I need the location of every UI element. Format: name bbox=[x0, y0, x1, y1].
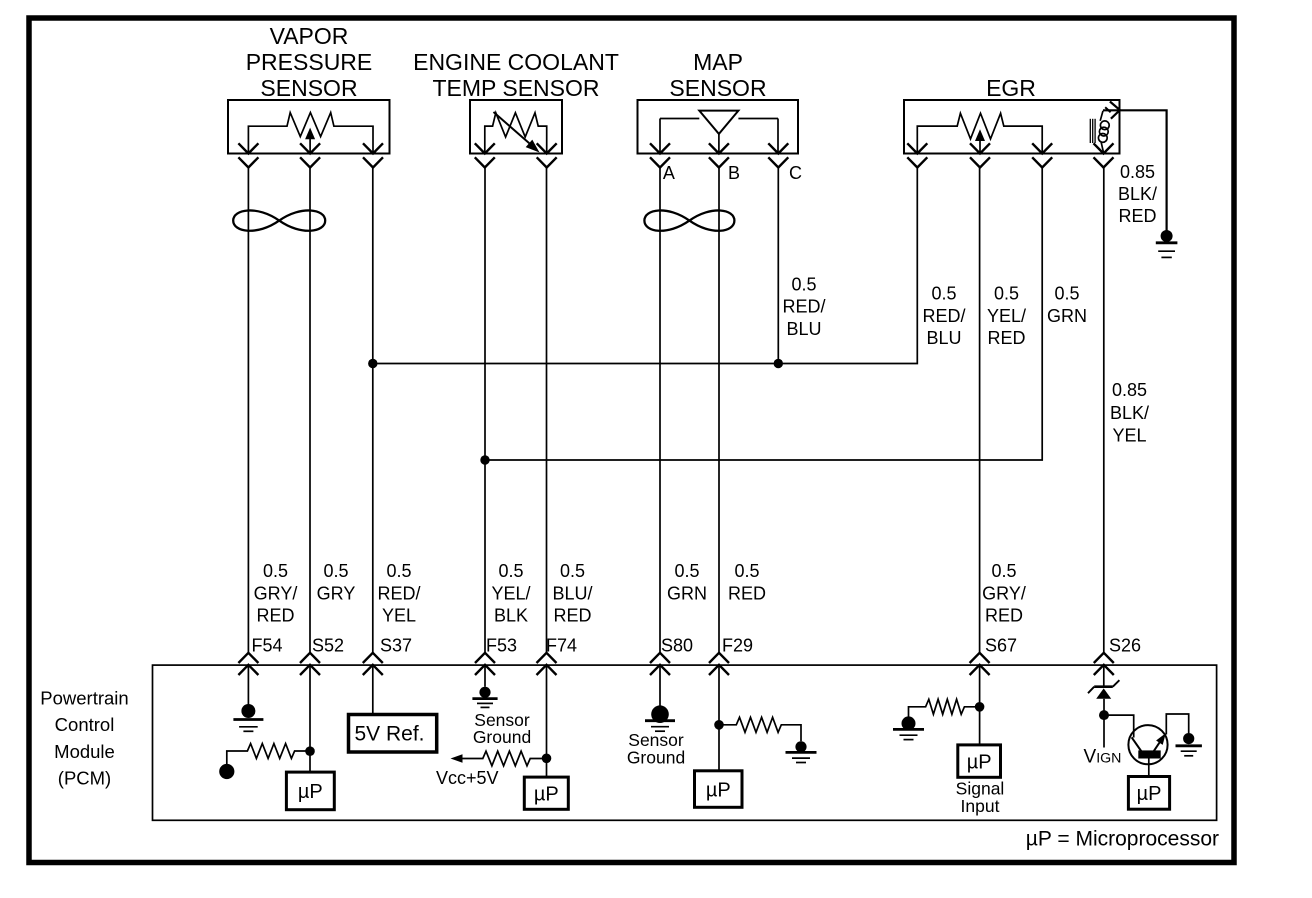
svg-text:µP: µP bbox=[298, 781, 323, 803]
svg-text:0.5: 0.5 bbox=[931, 284, 956, 304]
node supply dot (S52 pull-up) bbox=[219, 764, 234, 779]
MAP transducer triangle bbox=[699, 111, 738, 134]
svg-text:BLU: BLU bbox=[926, 328, 961, 348]
svg-text:A: A bbox=[663, 163, 675, 183]
svg-text:Input: Input bbox=[961, 796, 1000, 816]
svg-text:S80: S80 bbox=[661, 636, 693, 656]
microprocessor U3 (F29 input) bbox=[695, 771, 743, 808]
ground (F54 sensor return) bbox=[241, 704, 255, 718]
svg-text:YEL: YEL bbox=[1112, 426, 1146, 446]
EGR box bbox=[904, 100, 1120, 154]
potentiometer in EGR valve bbox=[917, 113, 1042, 153]
ground (F53 sensor ground) bbox=[479, 687, 490, 698]
terminal 2 of EGR bbox=[970, 143, 990, 167]
terminal 1 of EGR bbox=[907, 143, 927, 167]
wire VPS-2 to S52 (0.5 GRY) bbox=[309, 168, 311, 653]
svg-text:SENSOR: SENSOR bbox=[669, 75, 766, 101]
svg-text:S37: S37 bbox=[380, 636, 412, 656]
svg-text:Vcc+5V: Vcc+5V bbox=[436, 768, 499, 788]
Powertrain Control Module (PCM) box bbox=[153, 665, 1217, 820]
MAP sensor internal wiring bbox=[660, 118, 699, 120]
svg-text:S52: S52 bbox=[312, 636, 344, 656]
wire MAP-A to S80 (0.5 GRN) bbox=[659, 168, 661, 653]
svg-text:0.5: 0.5 bbox=[1054, 284, 1079, 304]
svg-text:0.5: 0.5 bbox=[791, 274, 816, 294]
wire VIGN stub bbox=[1103, 715, 1105, 747]
wire S52 to microprocessor bbox=[309, 665, 311, 772]
engine coolant temp sensor box bbox=[470, 100, 562, 154]
svg-text:RED: RED bbox=[985, 606, 1023, 626]
svg-text:RED: RED bbox=[1118, 206, 1156, 226]
svg-text:µP: µP bbox=[706, 779, 731, 801]
svg-text:S26: S26 bbox=[1109, 636, 1141, 656]
wire EGR solenoid to ground (0.85 BLK/RED) bbox=[1103, 110, 1167, 231]
wire ECT-1 to F53 (0.5 YEL/BLK) bbox=[484, 168, 486, 653]
svg-text:VAPOR: VAPOR bbox=[270, 23, 349, 49]
node junction MAP-C/5V bus bbox=[774, 359, 783, 368]
wire to transistor base bbox=[1104, 715, 1134, 737]
connector S67 at PCM bbox=[970, 653, 990, 675]
EGR solenoid coil bbox=[1100, 111, 1103, 121]
wiper arrow of EGR potentiometer bbox=[979, 141, 981, 154]
wire transistor collector to ground bbox=[1166, 714, 1188, 735]
svg-text:0.5: 0.5 bbox=[263, 561, 288, 581]
terminal B of MAP sensor bbox=[709, 143, 729, 167]
terminal A of MAP sensor bbox=[650, 143, 670, 167]
terminal C of MAP sensor bbox=[768, 143, 788, 167]
svg-text:5V Ref.: 5V Ref. bbox=[354, 723, 424, 746]
svg-text:0.85: 0.85 bbox=[1120, 162, 1155, 182]
svg-text:BLK/: BLK/ bbox=[1110, 403, 1149, 423]
connector F29 at PCM bbox=[709, 653, 729, 675]
connector F74 at PCM bbox=[537, 653, 557, 675]
svg-text:BLK/: BLK/ bbox=[1118, 184, 1157, 204]
svg-text:RED: RED bbox=[553, 606, 591, 626]
svg-text:0.85: 0.85 bbox=[1112, 380, 1147, 400]
svg-text:GRY/: GRY/ bbox=[982, 583, 1026, 603]
svg-text:0.5: 0.5 bbox=[734, 561, 759, 581]
terminal 3 of EGR bbox=[1032, 143, 1052, 167]
svg-text:B: B bbox=[728, 163, 740, 183]
svg-text:Control: Control bbox=[55, 714, 115, 735]
ground (EGR solenoid supply return) bbox=[1161, 230, 1173, 242]
EGR solenoid connector arrow at corner bbox=[1110, 102, 1120, 119]
terminal 1 of coolant temp sensor bbox=[475, 143, 495, 167]
svg-text:µP: µP bbox=[1137, 783, 1162, 805]
svg-text:BLU: BLU bbox=[786, 319, 821, 339]
svg-text:RED: RED bbox=[256, 606, 294, 626]
wire S26 to zener diode bbox=[1103, 665, 1105, 686]
svg-text:Ground: Ground bbox=[627, 748, 685, 768]
wire F74 to microprocessor bbox=[546, 665, 548, 777]
wire MAP-C to 5V bus (0.5 RED/BLU) bbox=[777, 168, 779, 364]
node junction VIGN bbox=[1099, 710, 1109, 720]
wire VPS-3 to S37 (0.5 RED/YEL) bbox=[372, 168, 374, 653]
wire MAP-B to F29 (0.5 RED) bbox=[718, 168, 720, 653]
wire transistor emitter to microprocessor bbox=[1148, 759, 1150, 777]
svg-text:Powertrain: Powertrain bbox=[40, 687, 128, 708]
wire VPS-1 to F54 (0.5 GRY/RED) bbox=[247, 168, 249, 653]
zener diode D1 bbox=[1094, 685, 1113, 688]
thermistor in coolant temp sensor bbox=[485, 113, 547, 154]
node junction F29/resistor bbox=[714, 720, 724, 730]
ground (F29 pull-down) bbox=[795, 741, 806, 752]
svg-text:VIGN: VIGN bbox=[1084, 747, 1122, 768]
ground (S67 pull-down) bbox=[902, 716, 916, 730]
svg-text:PRESSURE: PRESSURE bbox=[246, 49, 373, 75]
svg-text:RED/: RED/ bbox=[782, 297, 825, 317]
svg-text:RED/: RED/ bbox=[377, 583, 420, 603]
svg-text:F74: F74 bbox=[546, 636, 577, 656]
svg-text:F29: F29 bbox=[722, 636, 753, 656]
svg-text:MAP: MAP bbox=[693, 49, 743, 75]
wire EGR-4 to S26 (0.85 BLK/YEL) bbox=[1103, 168, 1105, 653]
svg-text:YEL/: YEL/ bbox=[987, 306, 1026, 326]
connector S52 at PCM bbox=[300, 653, 320, 675]
connector S26 at PCM bbox=[1094, 653, 1114, 675]
wiper arrow of vapor pressure sensor bbox=[309, 139, 311, 154]
svg-text:Ground: Ground bbox=[473, 727, 531, 747]
connector F53 at PCM bbox=[475, 653, 495, 675]
potentiometer in vapor pressure sensor bbox=[248, 113, 373, 154]
wire S67 to microprocessor bbox=[979, 665, 981, 745]
svg-text:0.5: 0.5 bbox=[498, 561, 523, 581]
pull-up resistor on S52 bbox=[227, 744, 310, 765]
node junction S52/resistor bbox=[305, 746, 315, 756]
svg-text:RED/: RED/ bbox=[922, 306, 965, 326]
svg-text:0.5: 0.5 bbox=[386, 561, 411, 581]
vapor pressure sensor box bbox=[228, 100, 390, 154]
svg-text:0.5: 0.5 bbox=[994, 284, 1019, 304]
svg-text:EGR: EGR bbox=[986, 75, 1036, 101]
svg-text:0.5: 0.5 bbox=[560, 561, 585, 581]
pull-down resistor on S67 bbox=[909, 699, 980, 717]
svg-text:S67: S67 bbox=[985, 636, 1017, 656]
twisted pair symbol (vapor pressure sensor wires) bbox=[233, 210, 325, 230]
svg-text:RED: RED bbox=[728, 583, 766, 603]
svg-text:YEL/: YEL/ bbox=[491, 583, 530, 603]
svg-text:0.5: 0.5 bbox=[323, 561, 348, 581]
svg-text:GRY/: GRY/ bbox=[254, 583, 298, 603]
microprocessor U2 (F74 input) bbox=[524, 777, 568, 809]
svg-text:0.5: 0.5 bbox=[674, 561, 699, 581]
terminal 2 of coolant temp sensor bbox=[537, 143, 557, 167]
wire F54 to internal ground bbox=[247, 665, 249, 705]
node junction S37/5V bus bbox=[368, 359, 377, 368]
svg-text:BLU/: BLU/ bbox=[552, 583, 592, 603]
microprocessor U1 (S52 input) bbox=[286, 772, 334, 810]
MAP sensor box bbox=[638, 100, 799, 154]
node junction F74/resistor bbox=[542, 754, 552, 764]
terminal 1 of vapor pressure sensor bbox=[238, 143, 258, 167]
terminal 3 of vapor pressure sensor bbox=[363, 143, 383, 167]
svg-text:ENGINE COOLANT: ENGINE COOLANT bbox=[413, 49, 619, 75]
node junction S67/resistor bbox=[975, 702, 985, 712]
svg-text:Module: Module bbox=[54, 741, 115, 762]
wire S80 to sensor ground bbox=[659, 665, 661, 706]
svg-text:TEMP SENSOR: TEMP SENSOR bbox=[433, 75, 600, 101]
svg-text:GRY: GRY bbox=[317, 583, 356, 603]
svg-text:µP: µP bbox=[967, 751, 992, 773]
wire EGR-2 to S67 (0.5 GRY/RED) bbox=[979, 168, 981, 653]
node junction F53/sensor bus bbox=[480, 455, 489, 464]
svg-text:0.5: 0.5 bbox=[991, 561, 1016, 581]
transistor Q1 bbox=[1128, 725, 1167, 764]
svg-text:F54: F54 bbox=[252, 636, 283, 656]
svg-text:RED: RED bbox=[987, 328, 1025, 348]
wire F53 to sensor ground bbox=[484, 665, 486, 687]
connector S80 at PCM bbox=[650, 653, 670, 675]
microprocessor U5 (S26 driver) bbox=[1128, 777, 1169, 810]
EGR solenoid coil core bbox=[1089, 119, 1091, 143]
connector F54 at PCM bbox=[238, 653, 258, 675]
wire EGR-3 with sensor bus (0.5 GRN) bbox=[485, 168, 1042, 461]
svg-text:(PCM): (PCM) bbox=[58, 768, 111, 789]
pull-down resistor on F29 bbox=[719, 717, 801, 741]
5V Ref box bbox=[349, 715, 437, 753]
svg-text:BLK: BLK bbox=[494, 606, 528, 626]
wire S37 to 5V Ref bbox=[372, 665, 374, 715]
svg-text:F53: F53 bbox=[486, 636, 517, 656]
svg-text:µP = Microprocessor: µP = Microprocessor bbox=[1026, 828, 1219, 851]
terminal 2 of vapor pressure sensor bbox=[300, 143, 320, 167]
terminal 4 of EGR bbox=[1094, 143, 1114, 167]
ground (transistor collector) bbox=[1183, 733, 1194, 744]
svg-text:C: C bbox=[789, 163, 802, 183]
pull-up resistor to Vcc+5V bbox=[451, 754, 463, 763]
thermistor arrow bbox=[494, 112, 532, 145]
svg-text:YEL: YEL bbox=[382, 606, 416, 626]
svg-text:GRN: GRN bbox=[667, 583, 707, 603]
wire F29 to microprocessor bbox=[718, 665, 720, 771]
microprocessor U4 (S67 input) bbox=[958, 745, 1001, 777]
svg-text:SENSOR: SENSOR bbox=[260, 75, 357, 101]
connector S37 at PCM bbox=[363, 653, 383, 675]
ground (S80 sensor ground) bbox=[651, 705, 669, 723]
svg-text:µP: µP bbox=[534, 784, 559, 806]
twisted pair symbol (MAP sensor wires) bbox=[644, 210, 734, 230]
wire EGR-1 with 5V reference bus (0.5 RED/BLU) bbox=[373, 168, 918, 364]
wire ECT-2 to F74 (0.5 BLU/RED) bbox=[546, 168, 548, 653]
svg-text:GRN: GRN bbox=[1047, 306, 1087, 326]
